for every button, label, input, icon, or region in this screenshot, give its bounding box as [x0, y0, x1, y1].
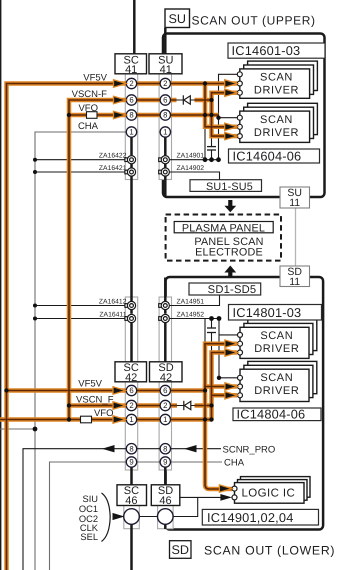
svg-text:9: 9	[129, 458, 133, 467]
svg-text:ZA14952: ZA14952	[177, 311, 205, 318]
svg-text:8: 8	[163, 111, 167, 120]
svg-text:2: 2	[163, 79, 167, 88]
svg-text:VFO: VFO	[78, 103, 98, 114]
svg-text:DRIVER: DRIVER	[254, 343, 299, 355]
svg-text:SCAN: SCAN	[260, 372, 293, 384]
svg-text:46: 46	[125, 495, 137, 507]
svg-text:SD: SD	[171, 543, 189, 557]
svg-text:DRIVER: DRIVER	[254, 85, 299, 97]
svg-text:ZA14901: ZA14901	[177, 153, 205, 160]
svg-text:1: 1	[129, 415, 133, 424]
svg-text:IC14601-03: IC14601-03	[232, 43, 301, 58]
svg-text:VF5V: VF5V	[83, 73, 107, 84]
svg-text:DRIVER: DRIVER	[254, 127, 299, 139]
svg-text:6: 6	[163, 96, 167, 105]
svg-text:ZA16412: ZA16412	[99, 298, 127, 305]
svg-text:46: 46	[159, 495, 171, 507]
svg-text:SU1-SU5: SU1-SU5	[206, 181, 253, 193]
svg-text:42: 42	[160, 372, 172, 384]
svg-text:41: 41	[160, 64, 172, 76]
svg-text:SEL: SEL	[80, 532, 98, 542]
svg-text:SD1-SD5: SD1-SD5	[208, 284, 257, 296]
svg-text:ELECTRODE: ELECTRODE	[195, 247, 263, 259]
svg-text:IC14901,02,04: IC14901,02,04	[207, 510, 294, 525]
svg-text:42: 42	[125, 372, 137, 384]
svg-text:6: 6	[129, 386, 133, 395]
svg-text:11: 11	[289, 197, 300, 209]
svg-text:1: 1	[163, 415, 167, 424]
svg-text:SIU: SIU	[83, 494, 99, 504]
svg-text:ZA16411: ZA16411	[99, 311, 126, 318]
svg-text:SCNR_PRO: SCNR_PRO	[223, 444, 276, 455]
svg-text:1: 1	[163, 128, 167, 137]
svg-text:IC14604-06: IC14604-06	[233, 148, 302, 163]
svg-text:CHA: CHA	[224, 458, 245, 469]
svg-text:2: 2	[129, 79, 133, 88]
svg-text:1: 1	[129, 128, 133, 137]
svg-text:SCAN: SCAN	[260, 72, 293, 84]
svg-text:CHA: CHA	[78, 121, 99, 132]
svg-text:SCAN OUT (LOWER): SCAN OUT (LOWER)	[204, 543, 335, 557]
svg-text:PLASMA PANEL: PLASMA PANEL	[182, 222, 265, 234]
svg-text:SCAN: SCAN	[260, 330, 293, 342]
svg-text:SU: SU	[168, 12, 186, 26]
svg-text:8: 8	[129, 111, 133, 120]
svg-text:VFO: VFO	[94, 408, 114, 419]
svg-text:6: 6	[129, 96, 133, 105]
svg-text:ZA14951: ZA14951	[177, 298, 205, 305]
svg-text:IC14801-03: IC14801-03	[233, 305, 302, 320]
svg-text:SCAN OUT (UPPER): SCAN OUT (UPPER)	[192, 14, 316, 28]
svg-text:11: 11	[289, 276, 300, 288]
svg-text:VSCN_F: VSCN_F	[76, 395, 114, 406]
svg-text:VSCN-F: VSCN-F	[72, 89, 108, 100]
svg-text:8: 8	[129, 444, 133, 453]
svg-text:LOGIC IC: LOGIC IC	[242, 488, 296, 500]
svg-text:ZA16422: ZA16422	[99, 153, 127, 160]
svg-text:OC1: OC1	[79, 504, 98, 514]
svg-text:6: 6	[163, 386, 167, 395]
svg-text:VF5V: VF5V	[78, 379, 102, 390]
svg-text:SCAN: SCAN	[260, 114, 293, 126]
svg-text:DRIVER: DRIVER	[254, 385, 299, 397]
svg-text:2: 2	[129, 401, 133, 410]
svg-text:ZA16421: ZA16421	[99, 165, 127, 172]
svg-text:8: 8	[163, 444, 167, 453]
svg-text:2: 2	[163, 401, 167, 410]
svg-text:41: 41	[125, 64, 137, 76]
svg-text:9: 9	[163, 458, 167, 467]
svg-text:ZA14902: ZA14902	[177, 165, 205, 172]
svg-text:IC14804-06: IC14804-06	[237, 406, 306, 421]
